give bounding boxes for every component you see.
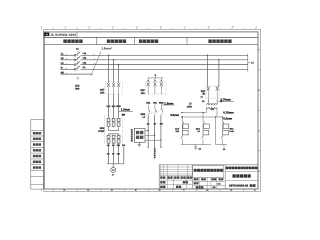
title mid sub-row dividers bbox=[199, 177, 201, 189]
junction dot relay 2KA feed bbox=[202, 112, 203, 113]
sheet outer border frame bbox=[44, 29, 261, 191]
svg-text:0.4A: 0.4A bbox=[230, 130, 235, 133]
relay common bottom bar 2 bbox=[216, 144, 228, 146]
wire N incoming segment bbox=[60, 68, 74, 70]
title block vertical divider right bbox=[224, 165, 226, 189]
contactor 1KM lower bracket wire bbox=[109, 127, 119, 131]
company name cell bbox=[193, 166, 224, 178]
junction dot control L2 tap bbox=[218, 59, 220, 61]
header label: power main switch bbox=[63, 39, 67, 43]
svg-text:2KA: 2KA bbox=[196, 127, 201, 130]
drawing number suffix blobs bbox=[250, 184, 253, 187]
svg-text:Jb SNPNW S200: Jb SNPNW S200 bbox=[50, 33, 76, 37]
branch2 outgoing arrows bbox=[147, 146, 149, 148]
incoming wire designation ticks bbox=[66, 54, 67, 56]
relay 3KA top contact bbox=[222, 119, 224, 121]
bottom zone tick marks and numbers bbox=[40, 189, 42, 191]
wire L3 incoming segment bbox=[60, 64, 74, 66]
svg-text:0.5mm: 0.5mm bbox=[223, 117, 232, 121]
bus N main run bbox=[81, 68, 248, 70]
relay 2KA coil box lower bbox=[203, 130, 209, 135]
wire branch1 PE lower bbox=[123, 147, 125, 164]
title block signature texts row3 bbox=[160, 186, 162, 188]
manufacturer logo block bbox=[44, 32, 78, 38]
title mid bottom texts bbox=[196, 186, 198, 188]
svg-text:A1: A1 bbox=[200, 96, 202, 99]
wire branch1 phase B lower bbox=[113, 143, 115, 164]
control ground drop wire bbox=[195, 145, 197, 148]
junction dot branch1 L2 bbox=[113, 59, 115, 61]
soft starter output wire 3 bbox=[145, 139, 161, 141]
motor M1 symbol bbox=[111, 167, 116, 172]
junction dot branch1 L1 bbox=[108, 55, 110, 57]
relay 2KA bottom contact bbox=[202, 136, 203, 138]
contactor 2KM contacts bbox=[147, 105, 149, 109]
svg-text:0.75mm: 0.75mm bbox=[223, 111, 234, 115]
title block outline bbox=[159, 165, 258, 189]
title mid header texts bbox=[194, 178, 196, 180]
svg-text:16A: 16A bbox=[141, 92, 146, 95]
svg-text:1KW: 1KW bbox=[187, 106, 193, 109]
circuit breaker 2QF enclosure bbox=[146, 82, 166, 94]
top zone tick marks and numbers bbox=[40, 28, 42, 30]
svg-text:25A: 25A bbox=[100, 92, 105, 95]
relay 3KA wire segments bbox=[222, 123, 224, 130]
wire branch1 phase A mid bbox=[108, 94, 110, 117]
junction dot branch1 L3 bbox=[118, 64, 120, 66]
relay 2KA wire segments bbox=[202, 123, 204, 130]
wire branch2 phase C lower bbox=[160, 116, 162, 148]
svg-text:1.5mm²: 1.5mm² bbox=[101, 46, 112, 50]
relay 1KA wire segments bbox=[181, 123, 183, 130]
net b riser wire bbox=[155, 77, 157, 78]
wire branch1 phase C mid bbox=[118, 94, 120, 117]
wire gauge leader 1.5mm bbox=[91, 51, 101, 75]
wire branch2 phase A lower bbox=[147, 116, 149, 148]
title mid sub-row lines bbox=[193, 180, 226, 182]
junction dot control L1 tap bbox=[207, 55, 209, 57]
wire branch1 phase A drop bbox=[108, 55, 110, 83]
relay 2KA top contact bbox=[202, 119, 204, 121]
circuit breaker 3QF enclosure bbox=[206, 86, 219, 98]
branch2 cable label vertical bbox=[154, 148, 156, 150]
wire PE segment bbox=[60, 73, 92, 75]
svg-text:2QF: 2QF bbox=[140, 89, 145, 92]
wire control phase B drop bbox=[218, 60, 220, 86]
wire gauge leader underline branch1 bbox=[119, 110, 133, 112]
control ground symbol bbox=[194, 147, 198, 149]
svg-text:3KA: 3KA bbox=[230, 127, 235, 130]
svg-text:400: 400 bbox=[75, 87, 80, 90]
thermal overload 1KH upper bracket wire bbox=[109, 134, 119, 135]
wire transformer primary feeds bbox=[207, 98, 209, 104]
svg-text:1W: 1W bbox=[117, 152, 120, 155]
title block signature texts row2 bbox=[160, 181, 162, 183]
wire branch1 phase A lower bbox=[108, 143, 110, 164]
svg-text:1KM: 1KM bbox=[99, 127, 104, 130]
header label: pipeline output motor bbox=[208, 39, 212, 43]
bus L1 main run bbox=[81, 54, 248, 56]
wire L1 incoming segment bbox=[60, 54, 74, 56]
junction dot long vertical bbox=[215, 116, 216, 117]
svg-text:0.5mm: 0.5mm bbox=[170, 113, 179, 117]
control transformer 1T primary winding bbox=[206, 104, 217, 105]
svg-text:8M: 8M bbox=[122, 114, 125, 117]
svg-text:3QF: 3QF bbox=[201, 90, 206, 93]
title block vertical divider mid bbox=[192, 165, 194, 189]
bus termination bracket bbox=[247, 54, 249, 72]
contactor 1KM pole elements bbox=[107, 118, 110, 121]
wire gauge leader underline control bbox=[218, 100, 234, 102]
company name text bbox=[194, 169, 197, 172]
project title row lines bbox=[225, 171, 258, 173]
soft starter output wire 2 bbox=[145, 134, 155, 136]
junction dot relay 3KA feed bbox=[222, 116, 223, 117]
drawing type text bbox=[232, 174, 235, 177]
branch2 top bar wire bbox=[148, 77, 164, 79]
left zone tick marks bbox=[43, 69, 46, 71]
svg-text:1.5mm: 1.5mm bbox=[121, 108, 131, 112]
wire control secondary neutral bbox=[216, 108, 218, 117]
svg-text:1.5mm: 1.5mm bbox=[164, 101, 174, 105]
right zone tick marks and letters bbox=[258, 69, 261, 71]
relay 1KA bottom contact bbox=[181, 136, 182, 138]
main switch 1SA linkage dashed line bbox=[77, 51, 79, 72]
bus L2 main run bbox=[81, 59, 248, 61]
svg-text:3A: 3A bbox=[202, 93, 205, 96]
relay common bottom bar 1 bbox=[181, 144, 211, 146]
relay 2KA coil box upper bbox=[204, 124, 210, 129]
title block signature row dividers bbox=[166, 176, 168, 189]
soft starter ground symbol bbox=[138, 142, 142, 146]
left signature table bbox=[31, 120, 44, 190]
junction dot relay 1KA feed bbox=[182, 116, 183, 117]
title block revision grid rows bbox=[159, 166, 192, 168]
bar2 drop wire bbox=[223, 145, 225, 148]
soft starter box text line2 bbox=[136, 136, 139, 139]
wire branch1 collector bar bbox=[107, 163, 124, 165]
wire motor feeder drop bbox=[112, 164, 114, 168]
svg-text:2W: 2W bbox=[160, 123, 163, 126]
relay 1KA coil box lower bbox=[182, 130, 188, 135]
wire designation ticks after switch bbox=[85, 54, 95, 56]
wire control secondary hot bbox=[206, 108, 208, 113]
wire branch1 phase C drop bbox=[118, 65, 120, 83]
relay 3KA bottom contact bbox=[221, 136, 222, 138]
svg-text:12A: 12A bbox=[175, 130, 179, 133]
circuit breaker 1QF poles bbox=[107, 83, 110, 87]
schedule header row bbox=[44, 36, 258, 38]
relay 1KA top contact bbox=[181, 119, 183, 121]
bus L3 main run bbox=[81, 64, 248, 66]
branch2 stub arrows bbox=[147, 78, 149, 82]
thermal overload 1KH pole elements bbox=[107, 135, 110, 138]
main switch ground tick bbox=[77, 77, 80, 79]
svg-text:2KM: 2KM bbox=[140, 113, 145, 116]
soft starter box text line1 bbox=[136, 131, 139, 134]
relay 1KA coil box upper bbox=[183, 124, 189, 129]
circuit breaker 3QF poles bbox=[207, 87, 210, 91]
soft starter output wire 1 bbox=[145, 130, 148, 132]
circuit breaker 1QF enclosure bbox=[105, 82, 123, 94]
svg-text:1KA: 1KA bbox=[175, 127, 180, 130]
wire gauge leader underline branch2 bbox=[162, 104, 175, 106]
title block signature row lines bbox=[159, 179, 192, 181]
header label: phase protector bbox=[139, 39, 143, 43]
title block revision grid columns bbox=[160, 165, 162, 176]
wire branch1 phase B drop bbox=[113, 60, 115, 83]
control transformer 1T secondary winding bbox=[206, 108, 217, 109]
sheet inner border frame bbox=[44, 32, 258, 189]
circuit breaker 2QF poles bbox=[147, 82, 150, 86]
wire control long vertical bbox=[215, 117, 217, 145]
wire branch1 phase C lower bbox=[118, 143, 120, 164]
relay 3KA coil box lower bbox=[223, 130, 229, 135]
svg-text:37kW: 37kW bbox=[98, 130, 105, 133]
soft starter side label vertical bbox=[131, 129, 133, 131]
contactor 1KM enclosure dashed sides bbox=[104, 115, 106, 143]
contactor 2KM linkage diagonal bbox=[146, 108, 166, 116]
project title text bbox=[226, 167, 229, 170]
wire branch2 phase B lower bbox=[154, 116, 156, 148]
title block signature texts row1 bbox=[160, 176, 162, 178]
svg-text:1QF: 1QF bbox=[100, 89, 105, 92]
wire branch1 phase B mid bbox=[113, 94, 115, 117]
header label: short-circuit protector bbox=[107, 39, 111, 43]
svg-text:03TS-DKGS-02: 03TS-DKGS-02 bbox=[229, 185, 248, 188]
wire L2 incoming segment bbox=[60, 59, 74, 61]
wire control phase A drop bbox=[207, 55, 209, 86]
svg-text:N: N bbox=[46, 34, 48, 37]
soft starter 1RQ box bbox=[134, 129, 145, 143]
left signature table row labels bbox=[33, 132, 36, 135]
main switch 1SA poles bbox=[74, 54, 76, 56]
relay 3KA coil box upper bbox=[223, 124, 229, 129]
